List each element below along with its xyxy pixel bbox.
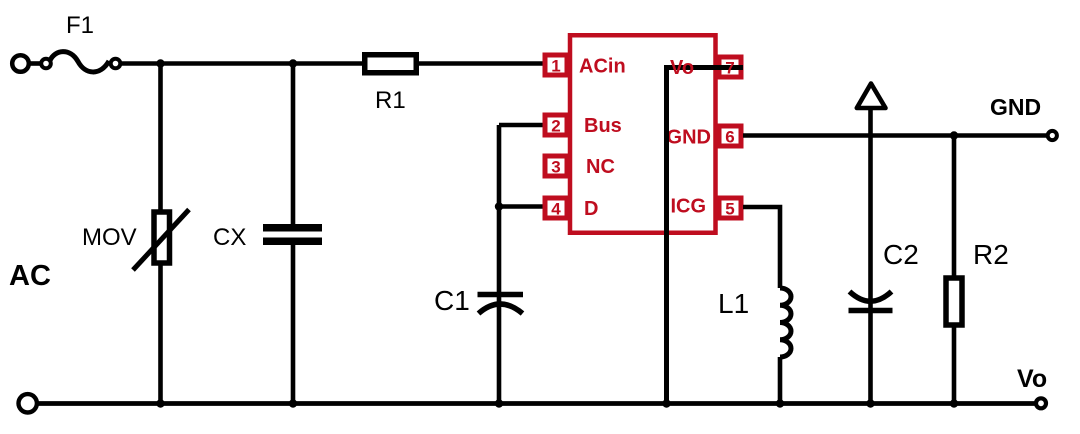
wire Vo net (pin 7 down to bottom rail): [667, 68, 744, 404]
terminal AC top-left: [12, 55, 29, 72]
terminal AC bottom-left: [19, 394, 37, 412]
svg-text:R2: R2: [973, 239, 1009, 270]
wire C1 branch: [497, 125, 502, 404]
wire bottom rail: [38, 401, 1035, 406]
wire: [419, 61, 544, 66]
svg-text:GND: GND: [990, 94, 1041, 120]
junction C2 bottom: [866, 399, 874, 407]
junction L1 bottom: [776, 399, 784, 407]
svg-text:1: 1: [551, 57, 560, 76]
wire MOV branch lower: [158, 265, 163, 404]
svg-text:C1: C1: [434, 285, 470, 316]
svg-text:GND: GND: [667, 127, 711, 149]
pin 7 box: [719, 57, 741, 77]
wire ICG pin5 to L1: [743, 207, 780, 288]
pin 6: [719, 126, 741, 147]
junction C1 bottom: [495, 399, 503, 407]
svg-text:R1: R1: [375, 87, 406, 114]
svg-text:ACin: ACin: [579, 56, 626, 78]
svg-text:D: D: [584, 198, 598, 220]
junction at MOV branch: [156, 59, 164, 67]
junction at CX branch: [289, 59, 297, 67]
svg-text:CX: CX: [213, 224, 246, 251]
wire C2 branch: [868, 108, 873, 404]
svg-text:Vo: Vo: [1017, 365, 1047, 393]
pin 1: [545, 55, 567, 76]
varistor MOV: [133, 210, 189, 271]
svg-text:ICG: ICG: [670, 196, 706, 218]
pin 3: [545, 156, 567, 177]
fuse F1: [41, 52, 120, 72]
svg-text:L1: L1: [718, 288, 749, 319]
wire R2 branch upper: [952, 136, 957, 278]
resistor R1: [365, 55, 417, 73]
svg-text:Vo: Vo: [670, 57, 694, 79]
svg-text:AC: AC: [9, 260, 51, 292]
terminal Vo: [1036, 398, 1046, 408]
wire R2 branch lower: [952, 326, 957, 404]
junction Bus/D node: [495, 202, 503, 210]
wire top rail: [120, 61, 364, 66]
capacitor C2: [849, 292, 893, 311]
op IC U1 body: [570, 35, 716, 233]
junction Vo line bottom: [662, 399, 670, 407]
junction R2 top: [950, 131, 958, 139]
junction MOV bottom: [156, 399, 164, 407]
pin 2: [545, 115, 567, 136]
svg-text:2: 2: [551, 117, 560, 136]
wire D pin4: [499, 204, 546, 209]
capacitor C1: [478, 295, 524, 314]
terminal GND: [1048, 131, 1057, 140]
svg-text:F1: F1: [66, 12, 94, 39]
svg-text:NC: NC: [586, 156, 615, 178]
wire CX branch upper: [291, 64, 296, 226]
capacitor CX: [263, 228, 322, 242]
wire L1 lower: [778, 357, 783, 404]
pin 4: [545, 198, 567, 219]
wire GND net: [743, 133, 1047, 138]
wire: [29, 61, 42, 66]
triangle symbol (antenna/supply marker): [857, 84, 886, 109]
svg-text:4: 4: [551, 200, 561, 219]
svg-text:6: 6: [725, 128, 734, 147]
svg-text:Bus: Bus: [584, 115, 622, 137]
junction R2 bottom: [950, 399, 958, 407]
junction CX bottom: [289, 399, 297, 407]
svg-text:3: 3: [551, 158, 560, 177]
inductor L1: [780, 288, 791, 357]
wire CX branch lower: [291, 244, 296, 404]
wire MOV branch upper: [158, 64, 163, 212]
svg-text:MOV: MOV: [82, 224, 137, 251]
svg-text:5: 5: [725, 200, 734, 219]
wire Bus pin2: [499, 123, 546, 128]
pin 5: [719, 198, 741, 219]
svg-text:7: 7: [725, 59, 734, 78]
svg-text:C2: C2: [883, 239, 919, 270]
resistor R2: [946, 278, 962, 325]
